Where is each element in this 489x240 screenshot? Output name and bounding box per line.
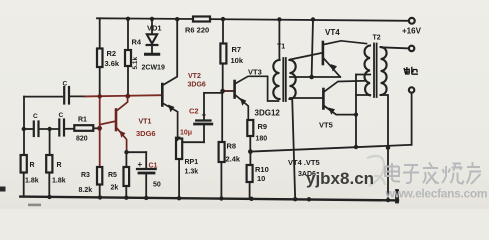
wire R1 to bias node: [93, 127, 99, 129]
transistor VT3 bar: [233, 81, 236, 98]
wire red bias column: [99, 96, 101, 167]
svg-text:VT5: VT5: [319, 121, 333, 130]
svg-text:2k: 2k: [111, 185, 119, 192]
bottom scan speck: [28, 204, 41, 207]
wire top supply rail left segment: [97, 17, 193, 20]
potentiometer RP1 body: [176, 139, 182, 160]
wire T2 center tap column: [355, 75, 357, 148]
transistor VT5 collector: [324, 81, 366, 92]
wire R7 branch top: [222, 19, 224, 43]
wire VT1 emitter node to R5: [125, 152, 127, 167]
transistor VT3 emitter: [236, 95, 249, 120]
arrow VT5 emitter: [329, 108, 336, 115]
capacitor C upper (feedback path): [63, 87, 65, 104]
transistor VT1 collector: [117, 96, 128, 110]
wire R4 branch bottom: [127, 66, 129, 96]
transistor VT2 emitter: [163, 104, 177, 137]
resistor R shunt 1: [21, 155, 27, 173]
transformer T1 primary winding: [273, 60, 279, 99]
svg-text:10k: 10k: [231, 56, 244, 65]
svg-text:2CW19: 2CW19: [142, 65, 165, 72]
transformer T2 secondary winding: [381, 47, 387, 95]
char 烧: [442, 164, 464, 184]
transistor VT5 emitter: [324, 106, 356, 115]
wire T1 secondary centertap vertical to rail: [312, 19, 313, 77]
wire VT3 base: [223, 90, 234, 92]
arrow VT1 emitter: [120, 131, 126, 138]
wire input corner vertical: [23, 97, 25, 155]
svg-text:VT2: VT2: [188, 73, 201, 80]
wire C2 top horizontal: [204, 92, 223, 94]
wire lower path segment 3: [65, 128, 74, 130]
ground rail: [20, 197, 398, 201]
svg-text:VT4 .VT5: VT4 .VT5: [288, 158, 320, 167]
char 电: [385, 163, 400, 182]
terminal output bottom circle: [409, 87, 414, 92]
resistor R7: [220, 44, 226, 64]
svg-text:3.6k: 3.6k: [105, 59, 120, 68]
wire T1 bottom tap to ground: [292, 98, 295, 200]
svg-text:R5: R5: [108, 172, 117, 179]
arrow VT2 emitter: [168, 105, 175, 113]
wire lower path segment 1: [24, 128, 33, 130]
svg-text:1.8k: 1.8k: [25, 178, 39, 185]
wire VT1 base: [100, 121, 116, 124]
char 子: [403, 165, 419, 183]
resistor R9: [247, 120, 253, 136]
svg-text:1.3k: 1.3k: [185, 169, 199, 176]
svg-text:2.4k: 2.4k: [226, 155, 241, 164]
wire R7 to VT3 base node: [222, 64, 224, 92]
wire R2 branch top: [99, 18, 101, 48]
svg-text:R6 220: R6 220: [185, 26, 209, 35]
wire R8 branch: [221, 91, 223, 142]
wire VT2 collector vertical: [163, 19, 177, 85]
svg-text:RP1: RP1: [185, 159, 199, 166]
resistor R6 (in series with rail): [193, 17, 210, 22]
svg-text:+: +: [138, 160, 143, 169]
wire upper path left: [24, 96, 62, 98]
svg-text:R: R: [57, 162, 62, 169]
transistor VT1 emitter: [117, 128, 127, 152]
wire feedback node to R10: [249, 152, 251, 166]
svg-text:3DG12: 3DG12: [255, 109, 281, 118]
capacitor C1 top lead: [145, 152, 147, 168]
wire VD1 branch top: [151, 19, 153, 34]
transistor VT4 collector: [324, 41, 367, 45]
svg-text:R4: R4: [132, 38, 142, 47]
capacitor C1 plates: [137, 168, 156, 170]
wire T2 secondary top to output terminal: [381, 47, 409, 48]
svg-text:T1: T1: [277, 44, 285, 51]
svg-text:+: +: [202, 111, 207, 120]
svg-text:www.elecfans.com: www.elecfans.com: [385, 187, 488, 201]
wire R shunt1 to ground: [23, 173, 25, 197]
wire T1 secondary center tap: [290, 76, 340, 78]
transistor VT4 bar: [322, 42, 325, 64]
resistor R1: [74, 125, 93, 131]
svg-text:8.2k: 8.2k: [79, 187, 93, 194]
capacitor C1 bottom lead to ground: [145, 175, 147, 198]
svg-text:3DG6: 3DG6: [188, 82, 206, 89]
wire R9 to feedback node: [249, 136, 251, 152]
resistor R5: [124, 167, 130, 186]
ground rail end bar: [395, 191, 399, 202]
arrow VT4 emitter: [331, 64, 338, 72]
wire R shunt2 to ground: [48, 173, 50, 198]
wire R8 to ground: [220, 162, 222, 198]
svg-text:VT3: VT3: [248, 68, 262, 77]
svg-text:yjbx8.cn: yjbx8.cn: [306, 169, 374, 188]
svg-text:R1: R1: [78, 117, 87, 124]
wire R4 branch top: [127, 19, 129, 50]
transistor emitter arrowheads: [120, 64, 338, 138]
svg-text:R2: R2: [107, 49, 117, 58]
svg-text:R3: R3: [81, 172, 90, 179]
wire top supply rail right segment: [210, 19, 409, 21]
capacitor C2 top lead: [203, 93, 205, 119]
svg-text:VD1: VD1: [147, 24, 162, 33]
arrow VT3 emitter: [240, 98, 246, 106]
transistor VT1 bar: [115, 110, 118, 131]
svg-text:1.8k: 1.8k: [52, 178, 66, 185]
wire T1 secondary bottom tap to VT5 base: [290, 97, 323, 99]
transistor VT5 bar: [322, 89, 325, 109]
svg-text:C: C: [59, 112, 64, 119]
terminal output top circle: [409, 46, 414, 51]
terminal +16V circle: [409, 18, 415, 24]
capacitor C2 bottom lead: [203, 126, 205, 143]
resistor R3: [97, 167, 102, 185]
svg-text:R: R: [30, 162, 35, 169]
wire R2 branch bottom: [99, 67, 101, 96]
transformer T2 primary winding: [364, 46, 370, 96]
wire upper path mid black: [71, 95, 85, 97]
resistor R4: [125, 50, 131, 66]
capacitor C input 2: [58, 120, 60, 136]
resistor R8: [219, 142, 225, 162]
wire R5 to ground: [125, 186, 127, 198]
svg-text:R7: R7: [232, 45, 242, 54]
svg-text:C1: C1: [149, 163, 158, 170]
wire T2 center tap horizontal: [356, 74, 370, 76]
svg-text:+16V: +16V: [402, 27, 422, 36]
wire C2 to RP1 wiper side: [183, 141, 205, 143]
wire feedback line to output terminal: [251, 145, 412, 152]
capacitor C input 1: [33, 122, 35, 137]
svg-text:180: 180: [256, 136, 268, 143]
wire upper path red to VT2 base: [85, 95, 161, 96]
transistor VT2 bar: [161, 84, 164, 106]
label 输出 (output) drawn strokes: [404, 67, 418, 74]
capacitor C2 plates: [196, 119, 210, 121]
svg-text:VT4: VT4: [325, 28, 340, 37]
transistor VT3 collector: [236, 76, 279, 101]
wire T1 secondary top tap to VT4 base: [290, 53, 322, 60]
svg-text:R8: R8: [227, 142, 237, 151]
svg-text:R9: R9: [258, 122, 268, 131]
svg-text:R10: R10: [255, 165, 269, 174]
zener diode VD1: [147, 34, 157, 43]
resistor R10: [247, 165, 253, 182]
watermark 电子发烧友 drawn strokes: [385, 162, 481, 184]
transformer T1 core: [282, 58, 284, 101]
svg-text:10μ: 10μ: [180, 130, 192, 137]
svg-text:T2: T2: [373, 35, 381, 42]
transformer T2 core: [373, 44, 375, 98]
resistor R shunt 2: [46, 155, 52, 173]
char 发: [423, 163, 439, 185]
wire T2 primary bottom tap: [356, 94, 370, 96]
potentiometer RP1 wiper arrowhead: [175, 137, 181, 142]
svg-text:3DG6: 3DG6: [136, 129, 156, 138]
ground rail junction dots: [47, 195, 51, 199]
transformer T1 secondary winding: [290, 60, 296, 99]
watermark swirl logo ghost: [367, 156, 385, 186]
svg-text:C2: C2: [189, 107, 199, 116]
wire output terminal 2 down to feedback line: [411, 93, 413, 145]
wire T2 secondary bottom to ground: [381, 95, 388, 200]
wire lower path segment 2: [40, 128, 58, 130]
svg-text:C: C: [63, 81, 68, 88]
wire R3 to ground: [99, 185, 101, 198]
wire shunt branch 2 vertical: [49, 129, 51, 155]
svg-text:C: C: [33, 113, 38, 120]
wire RP1 to ground: [178, 159, 180, 198]
wire emitter node to C1: [126, 151, 146, 153]
svg-text:VT1: VT1: [139, 119, 152, 126]
char 友: [467, 162, 482, 184]
left edge scan mark: [0, 187, 6, 192]
svg-text:50: 50: [153, 182, 161, 189]
resistor R2: [97, 49, 103, 68]
wire R10 to ground: [249, 182, 251, 199]
transistor VT4 emitter: [324, 59, 340, 77]
svg-text:5.1k: 5.1k: [132, 56, 139, 69]
wire T1 primary top to rail: [278, 19, 280, 60]
svg-text:10: 10: [257, 174, 265, 183]
svg-text:820: 820: [76, 136, 88, 143]
